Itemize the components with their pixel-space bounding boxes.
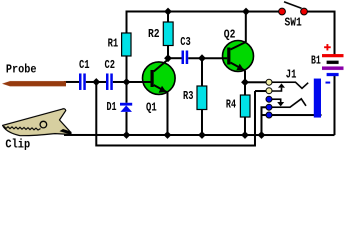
- resistor R1: [122, 33, 131, 56]
- resistor R2: [163, 22, 173, 46]
- wire R1 bottom lead: [125, 56, 127, 82]
- wire C2 to Q1 base: [113, 81, 151, 83]
- transistor Q1: [142, 59, 175, 94]
- transistor Q2: [223, 41, 254, 72]
- wire R4 top lead: [244, 82, 246, 95]
- svg-text:B1: B1: [311, 54, 321, 68]
- svg-text:SW1: SW1: [285, 16, 302, 30]
- capacitor C2: [106, 73, 113, 90]
- wire Q2 emitter to jack tip: [245, 81, 266, 83]
- wire R3 bottom lead: [201, 110, 203, 135]
- wire R4 bottom lead: [244, 117, 246, 135]
- svg-text:C3: C3: [180, 35, 191, 49]
- node Q1 base: [123, 78, 131, 86]
- wire R2 top lead: [167, 11, 169, 22]
- wire Q1 emitter lead: [166, 92, 168, 135]
- wire C3 left: [168, 57, 182, 59]
- svg-text:R2: R2: [148, 27, 160, 41]
- svg-text:C2: C2: [105, 58, 116, 72]
- wire C1 to C2: [86, 81, 106, 83]
- svg-text:Clip: Clip: [5, 137, 30, 151]
- resistor R4: [240, 95, 250, 117]
- wire jack ring line with down arrow: [272, 99, 281, 102]
- capacitor C3: [182, 51, 189, 65]
- wire top rail: [127, 10, 283, 12]
- wire battery negative lead: [333, 76, 335, 135]
- node Q1 collector: [164, 54, 172, 62]
- wire Q2 emitter lead: [244, 71, 246, 83]
- svg-text:J1: J1: [286, 68, 297, 82]
- probe tip: [2, 81, 66, 86]
- switch SW1: [279, 2, 308, 15]
- node ground R3: [198, 131, 206, 139]
- wire jack tip line to contact: [272, 82, 308, 88]
- svg-text:Probe: Probe: [6, 63, 37, 77]
- resistor R3: [197, 86, 207, 110]
- svg-text:Q2: Q2: [224, 27, 236, 41]
- node R3 top: [198, 54, 206, 62]
- wire jack sleeve stub: [261, 114, 266, 116]
- svg-text:R1: R1: [108, 37, 119, 51]
- wire node1 drop and bottom return rail: [96, 82, 255, 146]
- node ground jack: [258, 131, 266, 139]
- node ground R4: [241, 131, 249, 139]
- wire jack ring-switch line to contact: [272, 99, 306, 107]
- svg-text:C1: C1: [79, 58, 90, 72]
- wire R1 top lead: [126, 10, 128, 32]
- crocodile clip: [3, 109, 72, 136]
- wire Q2 collector lead: [245, 12, 247, 43]
- jack plug: [314, 79, 321, 118]
- wire jack sleeve line: [272, 114, 322, 116]
- wire D1 bottom lead: [125, 112, 127, 135]
- wire ground rail: [64, 134, 335, 136]
- wire R3 top lead: [201, 58, 203, 86]
- node C1 C2 junction: [92, 78, 100, 86]
- svg-text:D1: D1: [106, 100, 116, 114]
- node Q2 emitter: [241, 78, 249, 86]
- node top rail Q2 collector: [242, 8, 250, 16]
- svg-text:Q1: Q1: [146, 100, 157, 114]
- wire D1 top lead: [125, 82, 127, 103]
- wire probe to C1: [64, 81, 79, 83]
- svg-text:R3: R3: [183, 89, 193, 103]
- node top rail R2: [164, 8, 172, 16]
- wire jack tip-switch arrow: [272, 88, 282, 91]
- battery B1: [322, 44, 344, 83]
- wire R2 bottom lead: [167, 45, 169, 58]
- wire rail from SW1 to battery: [304, 12, 335, 55]
- wire jack ring-switch to ground: [261, 107, 266, 135]
- diode D1: [120, 103, 132, 112]
- node ground D1: [123, 131, 131, 139]
- capacitor C1: [79, 73, 86, 90]
- wire Q1 collector lead: [167, 58, 169, 59]
- jack J1 contacts: [266, 79, 272, 118]
- svg-text:R4: R4: [226, 98, 236, 112]
- wire jack tip-switch left to return rail: [255, 90, 266, 92]
- node ground Q1 emitter: [164, 131, 172, 139]
- wire C3 to Q2 base: [188, 57, 227, 59]
